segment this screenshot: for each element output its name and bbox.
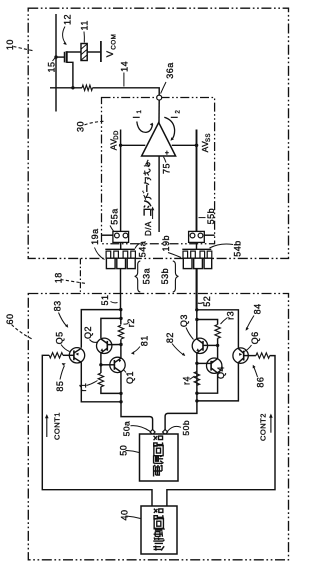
svg-text:15: 15 xyxy=(47,61,57,72)
transistor Q3 xyxy=(192,338,217,353)
AVSS rail xyxy=(172,130,199,232)
svg-text:r3: r3 xyxy=(226,311,236,320)
control circuit box 40 xyxy=(141,506,177,554)
wire 51 lower / left main line xyxy=(120,310,122,402)
wire 15 (gate line) xyxy=(55,14,57,112)
label AVDD xyxy=(108,130,120,150)
svg-text:84: 84 xyxy=(253,303,263,314)
node 36a (open circle) xyxy=(157,95,162,100)
chain box 60 (drive unit boundary) xyxy=(28,294,288,560)
label Q1 xyxy=(123,370,135,385)
wire 51 upper xyxy=(120,269,122,310)
svg-text:CONT1: CONT1 xyxy=(52,412,61,440)
D/A input feed line xyxy=(151,156,159,232)
resistor r2 (on main line, white backed) xyxy=(117,325,126,340)
label 60 xyxy=(5,313,33,339)
label D/A converter text xyxy=(144,221,153,236)
svg-text:DD: DD xyxy=(114,130,120,140)
label r3 xyxy=(221,311,236,324)
branch bottom to main xyxy=(101,387,121,394)
svg-text:11: 11 xyxy=(80,20,90,30)
katakana コンバータから (from D/A converter) above the D/A text xyxy=(142,160,151,216)
junction dots left main xyxy=(119,308,122,311)
svg-text:85: 85 xyxy=(55,381,65,392)
label 14 xyxy=(120,61,130,87)
svg-text:2: 2 xyxy=(175,110,181,114)
branch bottom right xyxy=(197,373,218,393)
svg-text:54a: 54a xyxy=(138,241,148,258)
label 83 arrow xyxy=(53,300,69,327)
current arrow I1 xyxy=(131,110,153,133)
brace 53a xyxy=(135,261,141,292)
svg-text:r4: r4 xyxy=(181,376,191,385)
wire to 50a xyxy=(121,402,153,430)
label 50 xyxy=(119,445,139,456)
svg-text:Q6: Q6 xyxy=(250,331,260,344)
chain segment 18 (board connection) xyxy=(79,258,81,293)
resistor 14 xyxy=(82,85,93,90)
svg-text:I: I xyxy=(131,116,142,119)
label 50b xyxy=(168,420,192,436)
glyph 回 xyxy=(154,446,163,456)
IC chain box 30 (drive circuit boundary) xyxy=(102,98,215,244)
glyph 御 xyxy=(154,528,164,540)
label 75 xyxy=(162,157,172,174)
label 11 xyxy=(80,20,90,42)
label 55b xyxy=(199,208,216,225)
label 18 xyxy=(54,272,86,283)
label 15 xyxy=(47,57,57,73)
svg-text:12: 12 xyxy=(62,14,72,25)
top rail right to Q6 xyxy=(197,310,239,348)
VCOM terminal bar xyxy=(100,41,102,62)
svg-text:CONT2: CONT2 xyxy=(259,413,268,441)
label Q5 xyxy=(55,331,70,351)
label 55a xyxy=(109,208,119,231)
svg-text:r1: r1 xyxy=(78,383,88,392)
svg-text:SS: SS xyxy=(206,133,212,142)
svg-text:53b: 53b xyxy=(160,268,170,285)
glyph 路 xyxy=(154,509,163,519)
svg-text:I: I xyxy=(170,116,181,119)
svg-text:1: 1 xyxy=(137,110,143,114)
wire resonator to VCOM terminal xyxy=(87,51,101,53)
label 54b xyxy=(210,240,243,257)
svg-text:55b: 55b xyxy=(206,208,216,225)
wire with resistor 14 to node 36a xyxy=(50,87,82,89)
terminal 50b (diamond) xyxy=(163,430,168,435)
svg-text:83: 83 xyxy=(53,300,63,311)
glyph 制 xyxy=(153,540,164,551)
label 85 arrow xyxy=(55,363,66,392)
op-amp 75 (triangle) xyxy=(142,123,176,157)
wire to 50b xyxy=(165,401,197,430)
svg-text:60: 60 xyxy=(5,313,15,324)
wire 52 upper xyxy=(196,269,198,310)
svg-text:r2: r2 xyxy=(126,318,136,327)
svg-text:V: V xyxy=(105,50,116,57)
branch Q2 to r1 xyxy=(100,353,102,373)
label Q4 xyxy=(216,366,226,379)
svg-text:Q5: Q5 xyxy=(55,331,65,344)
label r2 xyxy=(124,318,136,327)
resistor 85 xyxy=(49,353,63,358)
glyph 源 xyxy=(154,455,164,466)
resonator element 11 (hatched) xyxy=(81,44,87,61)
branch to r3 xyxy=(197,320,218,325)
terminal group 19b pads xyxy=(182,249,212,268)
kanji 電源回路 (power supply circuit) in box 50 xyxy=(154,436,164,477)
CONT1 label and arrow xyxy=(45,412,61,440)
label 40 xyxy=(120,509,141,520)
resistor r4 (on main line) xyxy=(194,372,199,386)
label 12 xyxy=(62,14,72,45)
svg-text:18: 18 xyxy=(54,272,64,283)
transistor Q5 xyxy=(63,348,85,363)
Q6 collector to bottom rail xyxy=(197,363,239,401)
kanji 制御回路 (control circuit) in box 40 xyxy=(153,509,164,551)
svg-text:Q1: Q1 xyxy=(125,371,135,384)
brace 53b xyxy=(173,261,179,292)
svg-text:82: 82 xyxy=(165,332,175,343)
label 30 xyxy=(76,121,106,132)
transistor Q6 xyxy=(233,348,256,363)
transistor Q4 xyxy=(197,358,222,373)
glyph 回 xyxy=(154,519,163,529)
label Q2 xyxy=(83,326,97,342)
svg-text:D/A: D/A xyxy=(144,221,153,236)
transistor Q1 xyxy=(101,357,125,372)
svg-text:30: 30 xyxy=(76,121,86,132)
branch r3 to Q4 xyxy=(217,338,219,359)
transistor 12 (MOS) xyxy=(56,51,81,88)
CONT2 label and arrow xyxy=(259,413,273,441)
svg-text:81: 81 xyxy=(140,335,150,346)
CONT2 wire xyxy=(167,356,275,506)
svg-text:Q3: Q3 xyxy=(179,314,189,327)
Q5 collector to bottom rail xyxy=(81,362,121,402)
svg-text:10: 10 xyxy=(5,39,15,50)
branch to Q2 xyxy=(101,318,121,338)
label 51 xyxy=(100,294,118,305)
label r1 xyxy=(78,381,97,392)
label 84 arrow xyxy=(246,303,263,330)
label 54a xyxy=(135,241,148,258)
transistor Q2 xyxy=(97,338,122,353)
label 19a xyxy=(90,228,105,259)
wire 52 lower / right main line xyxy=(196,310,198,401)
svg-text:51: 51 xyxy=(100,294,110,305)
label Q3 xyxy=(179,314,194,339)
svg-text:53a: 53a xyxy=(142,268,152,285)
svg-text:COM: COM xyxy=(110,34,117,50)
terminal group 19a pads xyxy=(105,249,135,268)
svg-text:50b: 50b xyxy=(181,420,191,436)
svg-text:52: 52 xyxy=(202,296,212,307)
label 36a xyxy=(161,62,175,93)
terminal 50a (diamond) xyxy=(150,430,155,435)
svg-text:36a: 36a xyxy=(165,62,175,79)
glyph 電 xyxy=(154,465,162,476)
terminal 55b xyxy=(189,231,215,249)
label AVSS xyxy=(200,133,212,152)
power supply circuit box 50 xyxy=(140,434,179,481)
label Q6 xyxy=(244,331,261,351)
resistor 86 xyxy=(256,353,270,358)
CONT1 wire xyxy=(42,355,152,506)
wire xyxy=(93,88,160,95)
junction dot xyxy=(71,86,74,89)
svg-text:86: 86 xyxy=(256,377,266,388)
label 86 arrow xyxy=(253,365,266,388)
label VCOM xyxy=(105,34,117,58)
svg-text:75: 75 xyxy=(162,163,172,174)
top rail left to Q5 xyxy=(81,310,121,348)
svg-text:40: 40 xyxy=(120,509,130,520)
label r4 xyxy=(181,376,194,385)
svg-text:55a: 55a xyxy=(109,208,119,225)
outer two-dot chain box 10 (oscillator module boundary) xyxy=(28,8,288,258)
node on wire 15 xyxy=(54,55,57,58)
svg-text:Q2: Q2 xyxy=(83,326,93,339)
resistor r3 xyxy=(215,325,220,339)
svg-text:19b: 19b xyxy=(161,235,171,252)
terminal 55a xyxy=(102,231,129,249)
current arrow I2 xyxy=(164,110,181,141)
label 81 arrow xyxy=(131,335,150,355)
svg-text:19a: 19a xyxy=(90,228,100,245)
label 82 arrow xyxy=(165,332,185,356)
AVDD rail xyxy=(119,130,145,232)
label 52 xyxy=(198,296,212,307)
wire node to op-amp output xyxy=(158,100,160,123)
label 19b xyxy=(161,235,181,258)
label 50a xyxy=(122,421,150,437)
resistor r1 xyxy=(98,373,103,387)
svg-text:54b: 54b xyxy=(233,240,243,257)
svg-text:14: 14 xyxy=(120,61,130,72)
glyph 路 xyxy=(154,436,163,446)
svg-text:50a: 50a xyxy=(122,421,132,437)
label 10 xyxy=(5,39,32,51)
